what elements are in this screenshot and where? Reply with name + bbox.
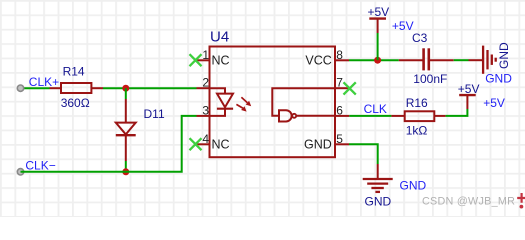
wire up to +5V — [377, 33, 379, 60]
pin 5 GND — [304, 132, 349, 152]
svg-text:CLK: CLK — [364, 102, 387, 116]
no-connect X pin1 — [190, 54, 202, 66]
pin 3 — [197, 103, 210, 117]
LED emission arrows — [236, 97, 251, 111]
svg-text:D11: D11 — [144, 107, 165, 121]
wire CLK+ horizontal — [21, 87, 50, 89]
power +5V (top) — [368, 5, 390, 33]
svg-text:4: 4 — [202, 132, 209, 146]
op-amp U4 optocoupler body — [210, 47, 336, 158]
pin 1 NC — [196, 48, 230, 68]
ground GND (right, rotated) — [469, 42, 512, 74]
pin 7 — [335, 76, 349, 90]
capacitor C3 — [399, 48, 454, 70]
svg-text:5: 5 — [336, 132, 343, 146]
pin 6 — [335, 103, 349, 117]
wire CLK- horizontal and up to pin3 — [21, 116, 197, 172]
svg-text:NC: NC — [212, 54, 230, 68]
svg-text:6: 6 — [336, 103, 343, 117]
svg-text:GND: GND — [365, 194, 392, 208]
ground GND (bottom) — [363, 164, 393, 208]
wire D11 top — [125, 88, 127, 99]
svg-text:1kΩ: 1kΩ — [406, 123, 428, 137]
pin 4 NC — [196, 132, 230, 152]
svg-text:U4: U4 — [210, 29, 229, 46]
resistor R16 — [391, 111, 445, 121]
junction node CLK-/D11 — [122, 168, 129, 175]
svg-text:R14: R14 — [63, 65, 85, 79]
svg-text:360Ω: 360Ω — [61, 96, 90, 110]
svg-text:8: 8 — [336, 48, 343, 62]
svg-text:1: 1 — [202, 48, 209, 62]
wire pin8 to +5V junction and C3 — [349, 59, 399, 61]
pin 2 — [197, 76, 210, 90]
pin 8 VCC — [305, 48, 349, 68]
svg-text:GND: GND — [485, 72, 512, 86]
junction node CLK+/D11 — [122, 85, 129, 92]
power +5V (right) — [458, 82, 480, 109]
svg-text:3: 3 — [202, 103, 209, 117]
svg-text:CLK+: CLK+ — [29, 75, 59, 89]
no-connect X pin4 — [190, 138, 202, 150]
internal LED of U4 — [210, 88, 234, 116]
no-connect X pin7 — [344, 82, 356, 94]
port dot CLK- — [17, 169, 23, 175]
svg-text:C3: C3 — [412, 31, 428, 45]
svg-text:2: 2 — [202, 76, 209, 90]
wire C3 to GND (right) — [454, 59, 469, 61]
watermark red mark — [517, 193, 525, 209]
wire D11 bottom — [125, 161, 127, 172]
port dot CLK+ — [17, 85, 23, 91]
svg-text:NC: NC — [212, 138, 230, 152]
resistor R14 — [50, 83, 104, 93]
svg-text:GND: GND — [400, 179, 427, 193]
svg-text:VCC: VCC — [305, 54, 331, 68]
svg-text:+5V: +5V — [392, 19, 414, 33]
internal gate of U4 — [272, 88, 335, 121]
wire pin5 to ground — [349, 144, 378, 164]
svg-text:CLK−: CLK− — [25, 158, 55, 172]
svg-text:R16: R16 — [406, 96, 428, 110]
wire R14 to pin2 — [103, 87, 197, 89]
svg-text:+5V: +5V — [483, 96, 505, 110]
svg-text:7: 7 — [336, 76, 343, 90]
junction node VCC — [374, 57, 381, 64]
svg-text:100nF: 100nF — [413, 72, 447, 86]
diode D11 — [116, 99, 136, 161]
svg-text:GND: GND — [497, 42, 511, 69]
svg-text:+5V: +5V — [458, 82, 480, 96]
svg-text:CSDN @WJB_MR: CSDN @WJB_MR — [422, 196, 515, 208]
wire R16 to +5V — [446, 109, 468, 116]
svg-text:+5V: +5V — [368, 5, 390, 19]
wire pin6 to R16 — [349, 115, 391, 117]
svg-text:GND: GND — [304, 138, 332, 152]
